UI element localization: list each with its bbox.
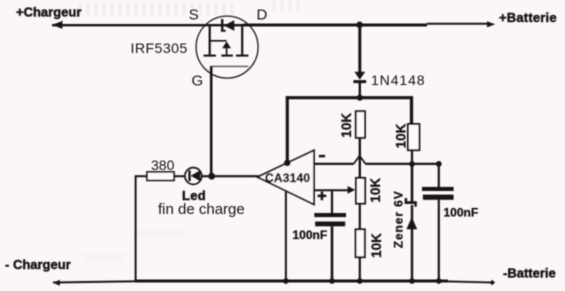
label -Batterie [503,266,556,281]
label minus input [319,155,325,158]
wire C1 to rail [331,226,334,281]
transistor Q1 IRF5305 circle [196,16,258,78]
svg-text:10K: 10K [339,113,354,138]
resistor R2 10K right box [408,124,420,150]
scanner streaks (decorative) [78,0,300,262]
wire gate vertical [210,66,213,176]
zener DZ1 cathode bar [405,198,417,207]
wire bottom rail [53,281,491,283]
wire top rail left segment [52,24,243,26]
wire crossover hump [354,156,366,164]
label fin de charge [158,201,245,218]
diode D1 1N4148 triangle [354,72,365,80]
label 10K R1 [339,113,354,138]
svg-text:Zener 6V: Zener 6V [392,190,406,248]
node rail C1 [329,278,335,284]
Q1 body diode triangle [224,20,234,31]
label +Chargeur [16,5,81,20]
node minus to R2 zener [409,161,415,167]
wire R2 bottom to minus node [411,150,413,164]
wire C2 to rail [438,200,440,281]
wire R3 to rail [359,257,361,281]
svg-text:10K: 10K [368,178,383,203]
arrow +Batterie right [487,21,495,27]
wire R4 to led [174,175,185,177]
Q1 source bar [209,25,211,55]
wire C2 top [438,164,440,187]
led D2 circle [185,168,202,185]
wire plus node to C1 [331,190,333,213]
diode D1 cathode bar [353,80,366,83]
wire diode to feedback node [359,83,361,97]
label 380 [151,157,175,173]
node feedback diode junction [357,95,363,101]
svg-text:10K: 10K [369,233,384,258]
svg-text:G: G [192,73,204,90]
zener DZ1 triangle [406,217,417,229]
svg-text:100nF: 100nF [293,228,328,242]
label 10K R3 [369,233,384,258]
Q1 gate line [210,65,248,67]
capacitor C2 bottom plate [423,195,454,200]
wire minus input left part [314,163,354,165]
wire feedback left vertical [286,96,289,163]
pin S label [189,7,199,24]
wire zener top [411,164,414,203]
Q1 channel contact bar middle [221,55,233,57]
node feedback to op-amp [284,160,291,167]
arrow -Chargeur left [53,280,60,286]
led D2 cathode bar [188,170,190,181]
svg-text:fin de charge: fin de charge [158,201,245,218]
label plus input [318,192,327,201]
label 10K R2 [394,123,409,148]
node junction top rail to diode [356,22,363,29]
pin G label [192,73,204,90]
Q1 body connection line [209,40,227,42]
arrow potentiometer wiper [348,186,356,194]
capacitor C1 100nF top plate [314,213,346,217]
capacitor C1 bottom plate [315,222,345,227]
wire feedback horizontal [286,96,413,99]
svg-text:10K: 10K [394,123,409,148]
svg-text:CA3140: CA3140 [265,171,310,185]
wire diode drop [358,25,361,72]
arrow -Batterie end [490,280,495,285]
label Zener 6V [392,190,406,248]
svg-text:100nF: 100nF [444,206,479,220]
wire top rail right thin segment [427,23,488,25]
svg-text:IRF5305: IRF5305 [131,41,188,57]
label 10K P1 [368,178,383,203]
label +Batterie [499,10,557,25]
node rail op-amp [283,278,289,284]
wire R4 left [136,175,147,177]
wire top rail thick segment [243,24,427,27]
node gate to output [208,173,215,180]
node rail zener [409,278,415,284]
svg-text:1N4148: 1N4148 [371,72,425,88]
led D2 triangle [191,170,201,181]
Q1 body stub [226,48,228,56]
Q1 channel contact bar right [236,55,248,57]
svg-text:D: D [257,7,268,24]
arrow +Chargeur left [52,21,63,29]
potentiometer P1 10K box [356,178,365,204]
wire zener to rail [411,205,413,281]
node minus to C2 [436,161,442,167]
node rail C2 [436,278,442,284]
wire minus input right part [366,163,439,165]
label CA3140 [265,171,310,185]
wire pot to R3 [359,204,361,230]
label 100nF C1 [293,228,328,242]
wire op-amp V- to rail [285,191,287,281]
Q1 body diode cathode bar [221,19,226,32]
op-amp U1 CA3140 triangle [258,150,315,204]
Q1 channel contact bar left [204,55,216,57]
label Led [182,188,206,203]
svg-text:+Chargeur: +Chargeur [16,5,81,20]
Q1 drain bar [241,25,243,55]
resistor R3 10K bottom box [356,229,365,257]
pin D label [257,7,268,24]
svg-text:-Batterie: -Batterie [503,266,556,281]
label 1N4148 [371,72,425,88]
label - Chargeur [5,257,71,272]
label IRF5305 [131,41,188,57]
node rail chain [357,278,363,284]
wire plus input [314,189,349,191]
wire feedback right vertical [410,96,413,124]
wire left branch down [135,175,137,281]
Q1 body arrow up [222,41,231,48]
resistor R1 10K top box [356,111,365,138]
wire chain R1 to pot [359,138,361,178]
svg-text:+Batterie: +Batterie [499,10,557,25]
resistor R4 380 box [147,172,174,181]
svg-text:380: 380 [151,157,175,173]
label 100nF C2 [444,206,479,220]
svg-text:- Chargeur: - Chargeur [5,257,71,272]
wire op-amp output [202,175,259,177]
svg-text:S: S [189,7,199,24]
capacitor C2 100nF top plate [422,187,454,191]
